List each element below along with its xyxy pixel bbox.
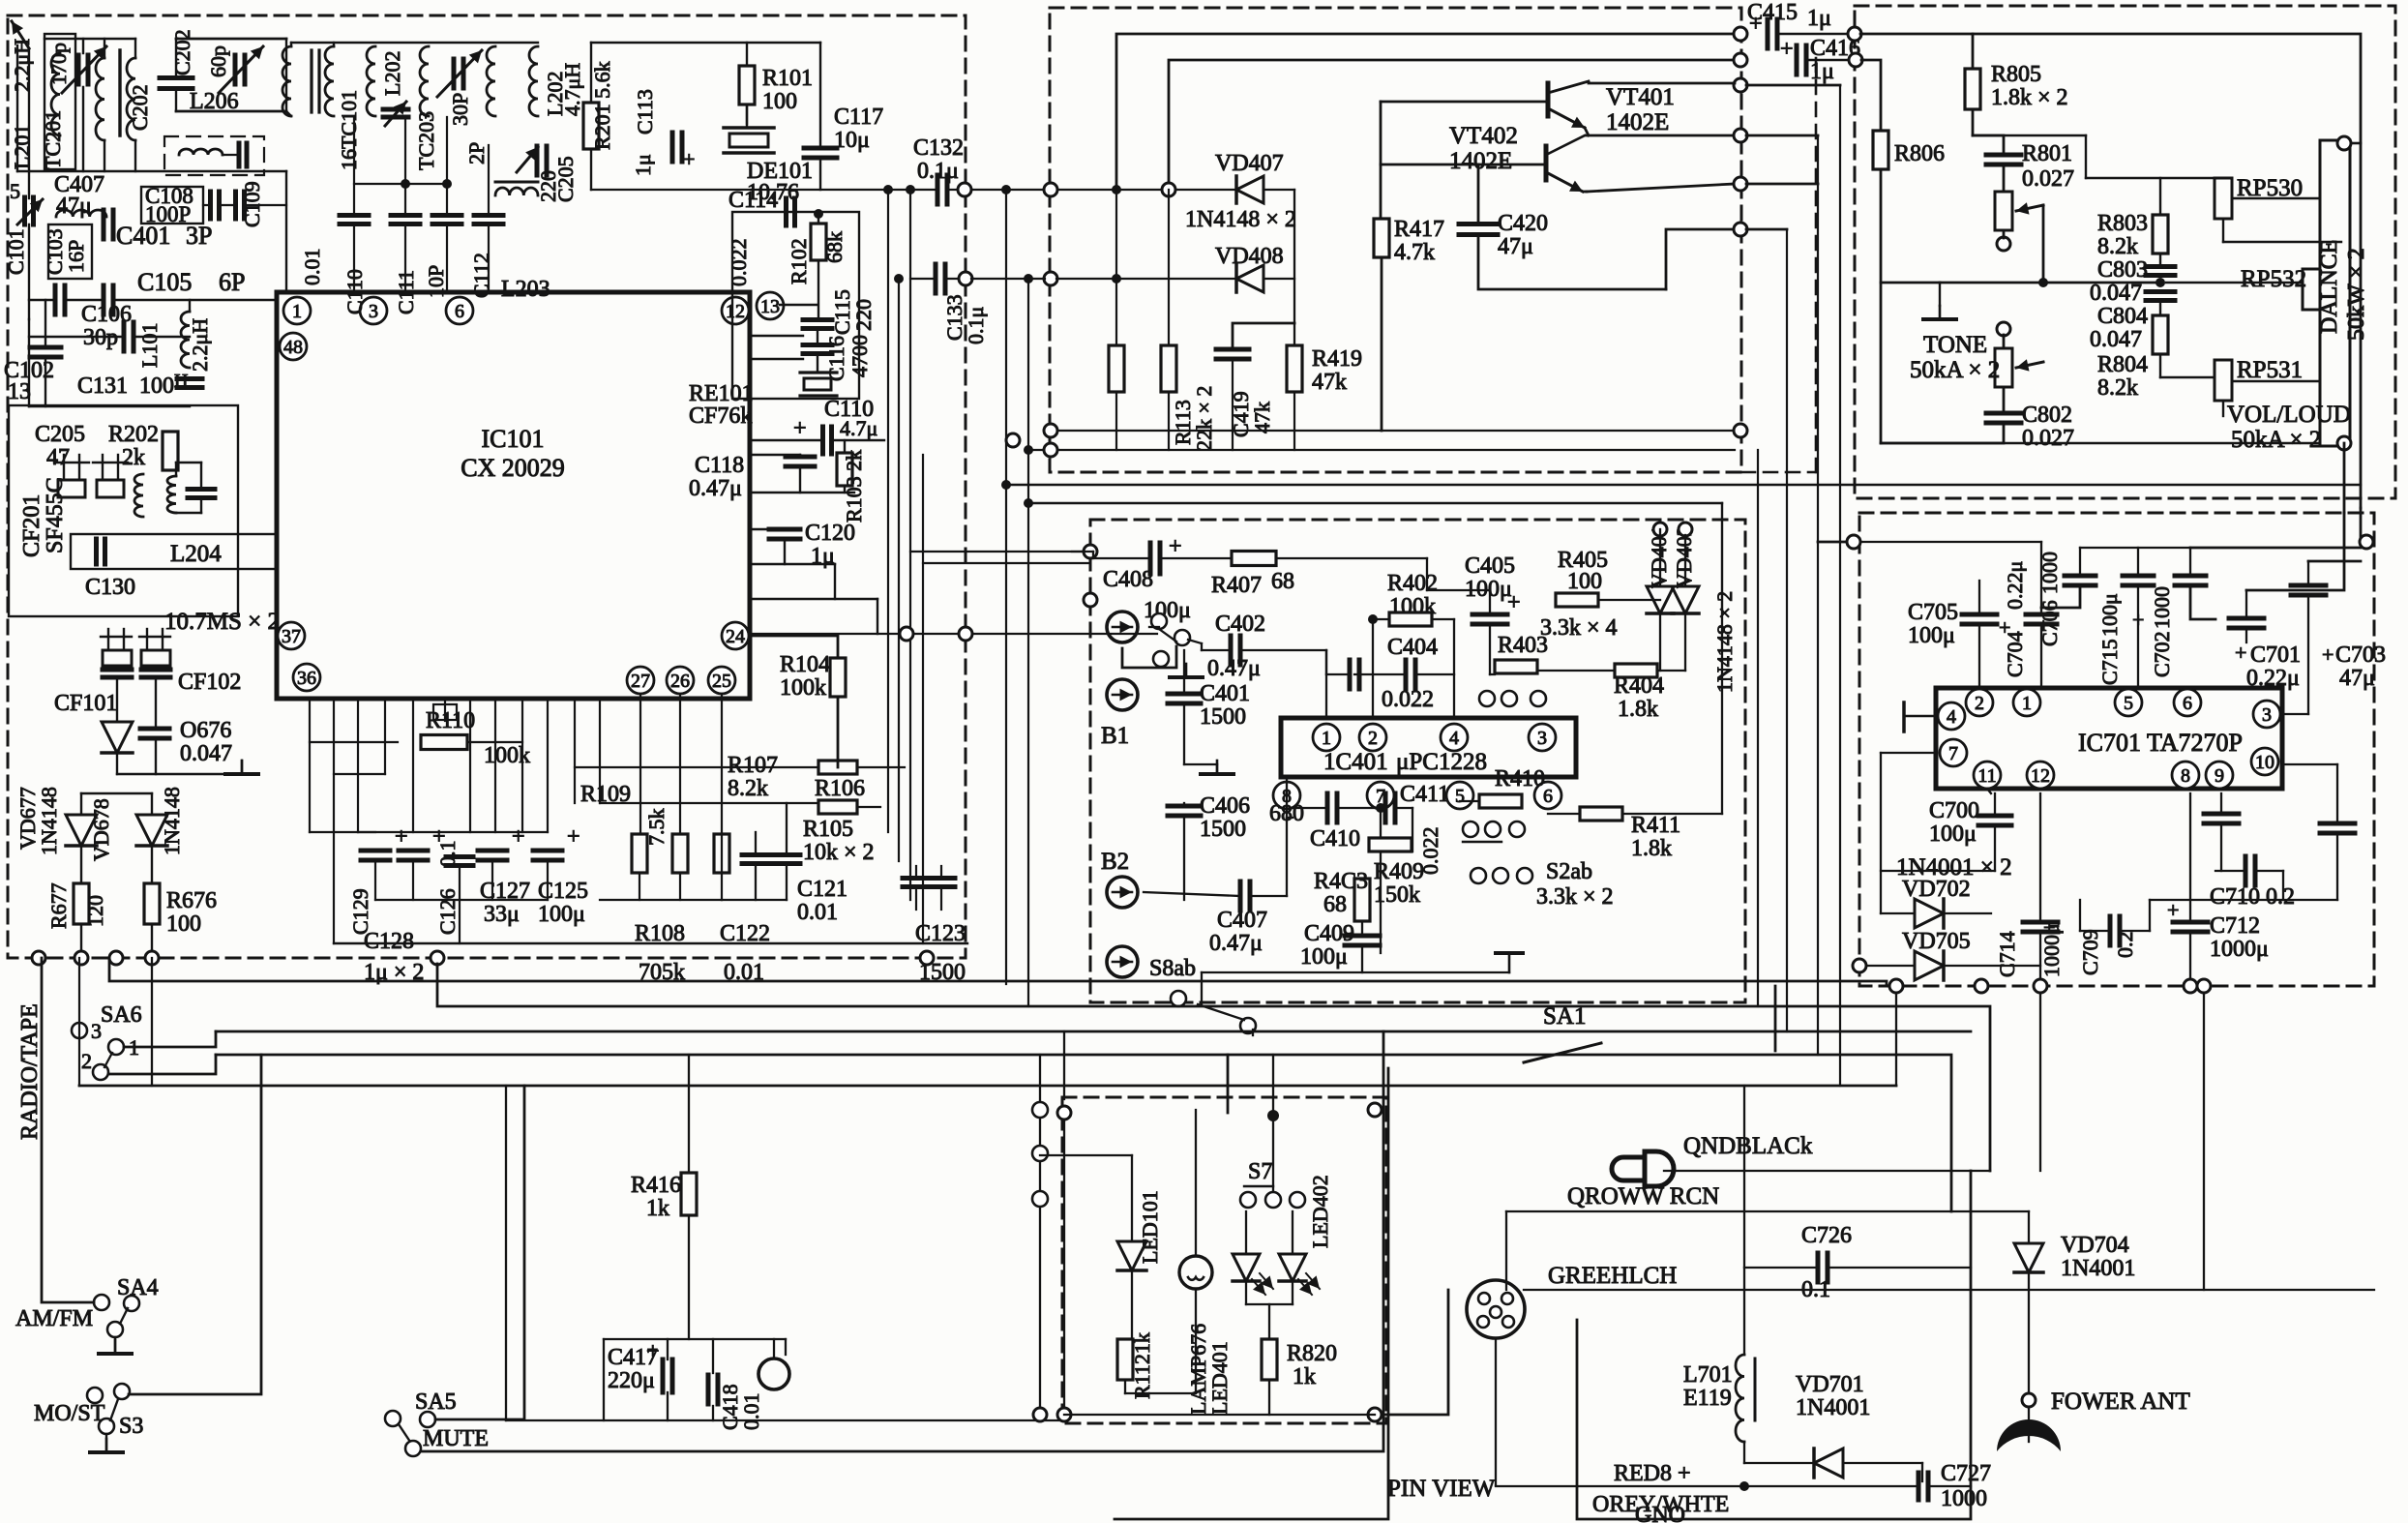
svg-text:50kA × 2: 50kA × 2 (1910, 357, 2000, 383)
svg-text:S2ab: S2ab (1546, 859, 1592, 884)
antenna arrow (12, 21, 29, 48)
svg-text:R417: R417 (1394, 217, 1444, 242)
wire VT401 base (1381, 101, 1548, 104)
svg-text:L204: L204 (170, 541, 222, 567)
IC701 pin 2 (1966, 689, 1993, 716)
svg-text:1.8k × 2: 1.8k × 2 (1991, 85, 2068, 110)
jack B1 lower (1107, 679, 1138, 710)
svg-text:C714: C714 (1995, 931, 2019, 977)
svg-text:GNO: GNO (1635, 1503, 1685, 1523)
svg-text:+: + (1169, 534, 1182, 559)
capacitor L101 bottom (177, 376, 202, 381)
svg-text:GREEHLCH: GREEHLCH (1548, 1263, 1677, 1289)
wire mute riser (1115, 1068, 1388, 1519)
capacitor C676 0.047 (140, 727, 169, 732)
svg-text:2.2μH: 2.2μH (10, 39, 34, 92)
coil CF201 tank (134, 474, 143, 517)
svg-text:1.8k: 1.8k (1631, 836, 1672, 861)
resistor R103 2k (837, 453, 852, 486)
svg-text:MUTE: MUTE (423, 1426, 489, 1451)
bottom right frame (1577, 1171, 1971, 1519)
capacitor C802 0.027 (1986, 411, 2021, 416)
svg-text:100k: 100k (780, 675, 826, 701)
capacitor C804 0.047 (2146, 289, 2175, 294)
IC701 pin 12 (2027, 761, 2054, 789)
wires R803 chain (2159, 178, 2161, 215)
svg-text:+: + (1507, 590, 1521, 615)
svg-text:TONE: TONE (1923, 332, 1987, 358)
svg-text:9: 9 (2215, 765, 2224, 787)
svg-text:8.2k: 8.2k (2097, 234, 2138, 259)
resistor R677 120 (74, 883, 89, 924)
coil left tank 2 (96, 58, 104, 140)
capacitor C121 0.01 (742, 852, 769, 857)
svg-text:0.1μ: 0.1μ (964, 307, 988, 344)
potentiometer RP531 (2215, 360, 2232, 401)
IC401 pin 5 (1446, 782, 1473, 809)
ground C401 (1216, 761, 1219, 774)
resistor R806 (1873, 131, 1888, 169)
diode VD704 1N4001 (2014, 1243, 2043, 1272)
svg-text:68: 68 (1323, 892, 1347, 917)
wire transformer top (286, 111, 291, 116)
svg-text:SA1: SA1 (1543, 1003, 1586, 1030)
svg-text:R104: R104 (780, 652, 830, 677)
wires diode feed (81, 792, 152, 794)
svg-text:100μ: 100μ (1929, 821, 1977, 847)
svg-text:120: 120 (83, 895, 107, 927)
svg-text:4.7μH: 4.7μH (560, 63, 584, 116)
wire top rail left tank (45, 38, 135, 40)
resistor R405 100 (1556, 593, 1598, 607)
svg-text:1N4001: 1N4001 (1796, 1395, 1870, 1420)
svg-text:TC203: TC203 (414, 111, 438, 170)
inductor L203 (495, 188, 538, 195)
IC U701 TA7270P body (1936, 688, 2282, 789)
wire IC701 C703 top feed (2308, 560, 2361, 563)
node LED box corners (1057, 1106, 1071, 1120)
capacitor C130 (94, 539, 99, 564)
svg-text:37: 37 (282, 626, 301, 647)
svg-text:+: + (395, 824, 408, 850)
svg-text:1N4148 × 2: 1N4148 × 2 (1185, 207, 1296, 232)
polar cap C127 33u (478, 849, 507, 853)
IC701 pin 6 (2174, 689, 2201, 716)
svg-text:IC701 TA7270P: IC701 TA7270P (2078, 729, 2243, 757)
dashed box: power amp IC701 section (right) (1859, 513, 2374, 986)
wire LED feeds (1063, 1120, 1065, 1408)
svg-text:R805: R805 (1991, 62, 2041, 87)
svg-text:QNDBLACk: QNDBLACk (1683, 1133, 1813, 1159)
svg-text:R1121k: R1121k (1130, 1332, 1154, 1399)
wires C417 block (604, 1338, 786, 1340)
svg-text:SA4: SA4 (117, 1275, 159, 1300)
resistor R104 100k (830, 658, 846, 697)
IC U101 CX20029 body (277, 292, 750, 699)
small circles S2ab row2 (1471, 868, 1486, 883)
svg-text:47μ: 47μ (2339, 666, 2375, 691)
svg-text:C114: C114 (728, 188, 778, 213)
svg-text:1500: 1500 (1200, 704, 1246, 730)
svg-text:3: 3 (369, 301, 378, 322)
wire C415 to R805 (1860, 34, 1973, 69)
wire long bus 4 (216, 1055, 1951, 1211)
coil C103 16P (48, 224, 92, 279)
resistor R676 100 (144, 883, 160, 924)
svg-text:C703: C703 (2335, 642, 2386, 668)
wire VT402 emitter wire (1585, 191, 1587, 194)
svg-text:7.5k: 7.5k (644, 809, 669, 847)
potentiometer RP530 (2215, 178, 2232, 219)
svg-text:12: 12 (2031, 765, 2050, 787)
diode VD676 (102, 722, 133, 753)
antenna FOWER ANT (2022, 1393, 2036, 1407)
wire bus risers left (151, 958, 153, 1086)
svg-text:5: 5 (1455, 786, 1465, 807)
svg-text:C410: C410 (1310, 826, 1360, 851)
svg-text:C121: C121 (797, 877, 847, 902)
IC401 pin 8 (1273, 782, 1300, 809)
svg-text:100: 100 (762, 89, 797, 114)
potentiometer TONE lower (1997, 322, 2010, 336)
svg-text:+: + (793, 416, 807, 441)
svg-text:R106: R106 (815, 776, 865, 801)
svg-text:C101: C101 (4, 228, 28, 275)
capacitor C407 0.47u (1238, 881, 1243, 911)
svg-text:C710 0.2: C710 0.2 (2210, 884, 2295, 910)
svg-text:L101: L101 (137, 323, 162, 368)
wire y509 (750, 492, 854, 493)
capacitor C118 stub (786, 455, 815, 460)
wire supply rail y501 (1006, 484, 2361, 486)
svg-text:R416: R416 (631, 1173, 681, 1198)
svg-text:C712: C712 (2210, 913, 2260, 939)
dashed extension right (1815, 58, 1818, 472)
svg-text:VD407: VD407 (1215, 151, 1284, 176)
wire box E top rail (1859, 541, 2041, 543)
svg-text:1k: 1k (1293, 1364, 1316, 1389)
svg-text:+: + (2322, 642, 2334, 667)
svg-text:0.22μ: 0.22μ (2003, 561, 2027, 610)
svg-text:R403: R403 (1498, 633, 1548, 658)
dashed box: tone/volume section (top right) (1855, 6, 2395, 498)
svg-text:16P: 16P (64, 240, 88, 273)
svg-text:10: 10 (2255, 752, 2274, 773)
capacitor pin8 unlabeled (2204, 812, 2239, 817)
svg-text:QROWW RCN: QROWW RCN (1567, 1183, 1719, 1209)
svg-text:8.2k: 8.2k (728, 776, 768, 801)
svg-text:R677: R677 (46, 882, 71, 929)
svg-text:2: 2 (81, 1049, 92, 1073)
resistor R105 10k x2 (818, 800, 857, 814)
svg-text:VD408: VD408 (1215, 244, 1284, 269)
svg-text:C409: C409 (1304, 921, 1354, 946)
small circles under R403 (1479, 691, 1495, 706)
LED402 (1279, 1254, 1306, 1281)
svg-text:1: 1 (292, 301, 302, 322)
wire top right to IC701 feeds (1973, 34, 2361, 508)
svg-text:μPC1228: μPC1228 (1396, 749, 1487, 775)
IC401 pin 7 (1367, 782, 1394, 809)
svg-text:24: 24 (726, 626, 745, 647)
svg-text:0.047: 0.047 (2090, 327, 2142, 352)
resistor R407 68 (1232, 552, 1276, 566)
svg-text:0.47μ: 0.47μ (1209, 931, 1263, 956)
wire long bus 5 (79, 1085, 1896, 1088)
svg-text:6P: 6P (219, 268, 245, 296)
IC101 pin 13 (757, 292, 784, 319)
svg-text:C202: C202 (128, 84, 152, 131)
svg-text:R419: R419 (1312, 346, 1362, 372)
crystal DE101 (729, 134, 768, 147)
svg-text:R676: R676 (166, 888, 217, 913)
svg-text:1μ: 1μ (1807, 6, 1831, 31)
wire LED box bottom (1064, 1414, 1375, 1416)
IC101 pin 3 (360, 297, 387, 324)
wire VD407 junctions (1112, 185, 1121, 194)
lamp LAMP676 (1179, 1256, 1212, 1289)
svg-text:0.01: 0.01 (797, 900, 838, 925)
dashed box: lamp/LED section (bottom center) (1062, 1097, 1386, 1423)
svg-text:1: 1 (2022, 693, 2032, 714)
svg-text:+: + (683, 147, 695, 171)
svg-text:C407: C407 (1217, 908, 1267, 933)
resistor R805 1.8k x2 (1965, 69, 1980, 109)
connector PIN VIEW circle (1467, 1280, 1525, 1338)
svg-text:1000: 1000 (1941, 1486, 1987, 1511)
wire VD408 junctions (1112, 274, 1121, 284)
svg-text:SA6: SA6 (101, 1002, 142, 1028)
svg-text:47: 47 (46, 445, 70, 470)
svg-text:R410: R410 (1495, 766, 1545, 791)
svg-text:220: 220 (851, 299, 876, 331)
wires below IC701 box (1895, 993, 1897, 1086)
capacitor row C111 (391, 213, 420, 218)
svg-text:68: 68 (1271, 569, 1294, 594)
IC701 pin 11 (1974, 761, 2001, 789)
svg-text:R107: R107 (728, 753, 778, 778)
svg-text:LED101: LED101 (1138, 1190, 1162, 1264)
svg-text:R407: R407 (1211, 573, 1262, 598)
capacitor row 10P (432, 213, 461, 218)
svg-text:+: + (2235, 641, 2246, 665)
capacitor C703 47u (2291, 583, 2326, 588)
svg-text:1C401: 1C401 (1323, 749, 1388, 775)
IC701 pin 5 (2115, 689, 2142, 716)
svg-text:36: 36 (297, 668, 316, 689)
svg-text:47k: 47k (1312, 370, 1347, 395)
wire VD cathode vertical (1263, 189, 1294, 191)
wire VD top nodes (1653, 523, 1667, 536)
svg-text:47μ: 47μ (1498, 234, 1533, 259)
wires under IC101 (309, 699, 311, 832)
svg-text:22k × 2: 22k × 2 (1192, 386, 1216, 451)
svg-text:S8ab: S8ab (1149, 956, 1196, 981)
wire right box feed verticals (1818, 541, 1859, 544)
svg-text:0.47μ: 0.47μ (689, 476, 742, 501)
IC101 pin 26 (667, 667, 694, 694)
resistor R1121k (1117, 1339, 1133, 1380)
wire AM/FM (42, 958, 94, 1302)
small circles S2ab row1 (1463, 821, 1478, 837)
capacitor C123 1500 (903, 876, 930, 881)
wires C108 row (203, 204, 210, 206)
wire tone box bottom to IC701 (2343, 443, 2346, 513)
LED101 (1117, 1241, 1146, 1270)
IC401 pin 6 (1534, 782, 1561, 809)
svg-text:R402: R402 (1387, 571, 1438, 596)
resistor R411 1.8k (1580, 807, 1622, 821)
svg-text:10k × 2: 10k × 2 (803, 840, 875, 865)
capacitor C710 0.2 (2244, 856, 2248, 885)
wire bottom center box (1202, 971, 1509, 973)
svg-text:C803: C803 (2097, 257, 2148, 283)
svg-text:E119: E119 (1683, 1386, 1732, 1411)
resistor R409 150k (1369, 838, 1412, 851)
jack B1 upper (1107, 612, 1138, 642)
wire C132 feed (591, 189, 936, 191)
svg-text:R105: R105 (803, 817, 853, 842)
wire row C106 (29, 336, 123, 338)
svg-text:1000: 1000 (2150, 586, 2174, 629)
node top left center box (1084, 545, 1097, 558)
svg-text:SF455C: SF455C (43, 477, 68, 553)
svg-text:4: 4 (1947, 706, 1956, 728)
transformer T101 coils (282, 46, 291, 116)
svg-text:68k: 68k (822, 231, 847, 263)
svg-text:170p: 170p (46, 43, 71, 85)
svg-text:C118: C118 (695, 453, 744, 478)
svg-text:H: H (174, 371, 188, 392)
wire bus vertical pair right of IC101 (887, 190, 889, 832)
svg-text:VT402: VT402 (1449, 123, 1518, 149)
svg-text:13: 13 (760, 296, 780, 317)
svg-text:R801: R801 (2022, 141, 2072, 166)
wire pin7 left (1881, 752, 1936, 754)
ground C676 (241, 761, 244, 774)
svg-text:100μ: 100μ (2097, 593, 2122, 637)
svg-text:100μ: 100μ (538, 902, 585, 927)
svg-text:+: + (1749, 12, 1763, 37)
svg-text:+: + (2167, 898, 2179, 922)
svg-text:13: 13 (8, 379, 31, 404)
jack B2 lower (1107, 946, 1138, 977)
svg-text:L701: L701 (1683, 1362, 1733, 1388)
svg-text:C202: C202 (170, 29, 194, 75)
node circles bottom dashed rail (32, 951, 45, 965)
svg-text:VT401: VT401 (1606, 84, 1675, 110)
wire connector drop (1495, 1338, 1497, 1485)
capacitor C727 1000 (1917, 1473, 1921, 1500)
svg-text:27: 27 (631, 671, 650, 692)
resistor R417 4.7k (1374, 219, 1389, 257)
svg-text:47k: 47k (1250, 402, 1274, 433)
node row bottom IC701 box (1889, 979, 1903, 993)
svg-text:C117: C117 (834, 105, 883, 130)
svg-text:+: + (646, 1339, 660, 1364)
capacitor row C110 (340, 213, 369, 218)
resistor R416 1k (681, 1173, 697, 1215)
wire y583 (750, 563, 835, 565)
capacitor C115 C116 stack (803, 317, 832, 322)
coil TC203 (420, 46, 429, 116)
box C114 cluster (732, 212, 859, 399)
resistor R410 (1479, 794, 1522, 808)
svg-text:4: 4 (1449, 728, 1459, 749)
capacitor C712 1000u polar (2173, 920, 2208, 925)
svg-text:PIN VIEW: PIN VIEW (1387, 1476, 1496, 1502)
wire power rail 2 C416 (1169, 60, 1735, 190)
svg-text:50kW × 2: 50kW × 2 (2344, 248, 2369, 341)
svg-text:L203: L203 (501, 277, 550, 302)
svg-text:C701: C701 (2250, 642, 2301, 668)
IC701 pin 10 (2251, 748, 2278, 775)
ground pin 4 stub (1904, 715, 1936, 717)
svg-text:RP532: RP532 (2241, 266, 2306, 292)
svg-text:+: + (567, 824, 580, 850)
capacitor C108 100P (141, 187, 203, 224)
svg-text:B1: B1 (1101, 723, 1129, 749)
svg-text:100P: 100P (145, 202, 191, 226)
svg-text:6: 6 (455, 301, 464, 322)
IC101 pin 24 (722, 622, 749, 649)
capacitor C404 0.022 (1404, 660, 1409, 689)
wire box D feed (910, 551, 1087, 552)
svg-text:C129: C129 (348, 888, 372, 935)
svg-text:CF76k: CF76k (689, 403, 752, 429)
wire SA5 riser (1227, 1055, 1230, 1113)
capacitor C403 series (1348, 660, 1353, 689)
svg-text:C420: C420 (1498, 211, 1548, 236)
svg-text:C116: C116 (824, 336, 848, 381)
svg-text:1500: 1500 (1200, 817, 1246, 842)
capacitor C411 0.022 (1383, 793, 1388, 822)
svg-text:12: 12 (726, 301, 745, 322)
svg-text:8: 8 (2181, 765, 2190, 787)
wires diode block (1887, 882, 1993, 979)
wire region B bottom rail (1051, 430, 1735, 432)
svg-text:C408: C408 (1103, 567, 1153, 592)
svg-text:C113: C113 (633, 89, 657, 134)
resistor R402 100k (1389, 612, 1432, 626)
wire pin8 drop (1286, 777, 1288, 818)
svg-text:60p: 60p (206, 45, 230, 77)
resistor row 2 (672, 834, 688, 873)
svg-text:0.027: 0.027 (2022, 166, 2074, 192)
IC101 pin 27 (627, 667, 654, 694)
capacitor C401 3p (102, 210, 106, 239)
svg-text:11: 11 (1977, 765, 1996, 787)
svg-text:0.01: 0.01 (739, 1393, 763, 1431)
IC701 pin 9 (2206, 761, 2233, 789)
svg-text:C804: C804 (2097, 304, 2148, 329)
svg-text:B2: B2 (1101, 849, 1129, 875)
svg-text:C702: C702 (2150, 631, 2174, 677)
coil C202 transformer (127, 58, 135, 140)
svg-text:16TC101: 16TC101 (337, 90, 361, 170)
resistor R201 5.6k (583, 103, 599, 149)
resistor row 3 (714, 834, 729, 873)
svg-text:26: 26 (670, 671, 690, 692)
resistor R408 68 (1354, 879, 1370, 921)
ground B1 stub (1149, 626, 1159, 628)
svg-text:+: + (1780, 37, 1794, 62)
svg-text:10.7MS × 2: 10.7MS × 2 (164, 609, 280, 635)
wire GREEHLCH (1524, 1289, 2374, 1291)
inductor L202 trimmer (367, 46, 375, 116)
svg-text:R404: R404 (1614, 673, 1664, 699)
capacitor C406 1500 (1168, 804, 1201, 809)
